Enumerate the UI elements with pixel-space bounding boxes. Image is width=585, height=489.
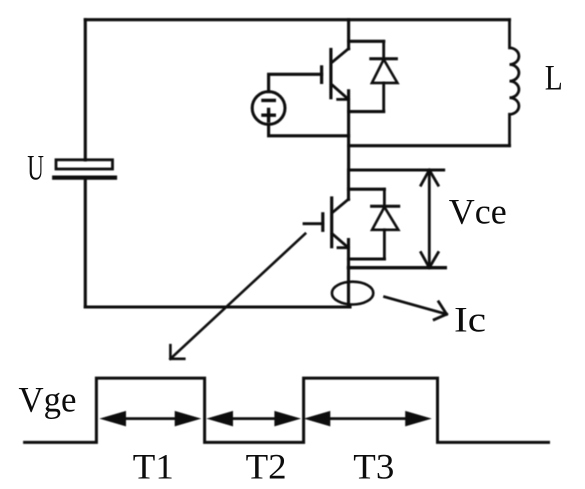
wire left rail lower	[84, 180, 87, 307]
wire top bus	[85, 18, 509, 21]
wire Q1 collector	[347, 20, 350, 49]
wire Q2 collector	[347, 170, 350, 199]
voltage source V1 (gate driver)	[252, 92, 285, 125]
node mid: Vce top reference bar	[349, 168, 444, 171]
wire Q1 emitter to mid node	[347, 91, 350, 170]
svg-text:Ic: Ic	[454, 300, 486, 340]
measurement arrow Vce	[421, 170, 438, 268]
svg-text:Vce: Vce	[449, 192, 507, 232]
wire Q2 emitter to bottom bus	[347, 240, 350, 308]
arrow T1 interval	[101, 412, 199, 426]
wire bottom bus	[85, 305, 350, 308]
arrow T3 interval	[306, 412, 431, 426]
waveform Vge double pulse	[25, 378, 549, 442]
svg-text:U: U	[27, 147, 44, 187]
svg-text:L: L	[545, 59, 563, 98]
svg-text:Vge: Vge	[19, 380, 77, 420]
wire V1 plus to Q1 gate	[269, 74, 322, 91]
svg-text:T1: T1	[133, 447, 174, 487]
svg-text:T2: T2	[246, 447, 287, 487]
wire left rail upper	[84, 20, 87, 160]
transistor Q1 (upper IGBT)	[322, 49, 349, 100]
callout arrow from Q2 gate to waveform	[170, 234, 305, 359]
capacitor U	[54, 160, 115, 178]
svg-text:T3: T3	[353, 447, 394, 487]
wire V1 minus to Q1 emitter	[269, 124, 349, 135]
diode D2 (lower freewheel)	[349, 189, 399, 259]
diode D1 (upper freewheel)	[349, 41, 398, 111]
arrow to Ic label	[385, 297, 447, 320]
wire mid node to inductor bottom	[349, 144, 510, 147]
inductor L	[510, 20, 519, 146]
arrow T2 interval	[208, 412, 299, 426]
Vce bottom reference bar	[349, 266, 446, 269]
transistor Q2 (lower IGBT, DUT)	[304, 198, 349, 248]
current probe ellipse	[332, 282, 373, 305]
